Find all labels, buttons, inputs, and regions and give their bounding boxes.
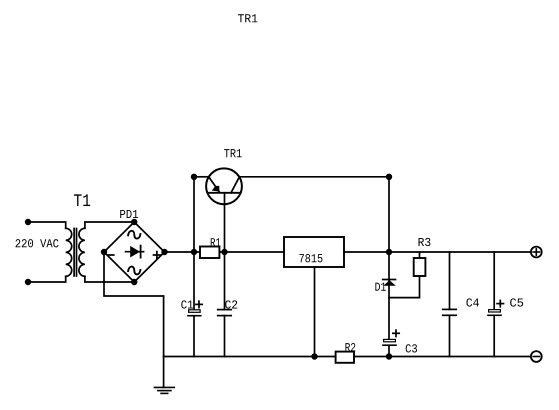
- wire C5 bottom lead: [493, 316, 495, 357]
- wire C2 bottom lead: [224, 316, 226, 357]
- wire ground rail right: [354, 356, 530, 358]
- wire base vertical: [224, 193, 226, 310]
- C5 plus mark: [497, 300, 503, 306]
- label R2: [345, 343, 355, 351]
- node bridge right vertex: [161, 249, 167, 255]
- node input top terminal: [25, 219, 31, 225]
- wire 7815 output rail: [344, 251, 530, 253]
- C1 plus mark: [196, 301, 202, 307]
- C3 plus mark: [393, 330, 399, 336]
- output terminal plus: [531, 247, 542, 258]
- wire C3 bottom lead: [388, 346, 390, 357]
- wire emitter branch vertical: [193, 177, 195, 309]
- label C2: [225, 300, 237, 308]
- capacitor C5: [488, 310, 501, 316]
- regulator U1 7815: [284, 237, 344, 267]
- transformer T1 core: [74, 229, 76, 277]
- label C5: [510, 298, 523, 306]
- label C3: [406, 344, 417, 352]
- node 7815 ground junction: [311, 353, 317, 359]
- output terminal minus: [531, 351, 542, 362]
- bridge PD1 plus mark: [154, 252, 161, 259]
- wire R3 top lead: [419, 252, 421, 258]
- node C3 ground junction: [386, 353, 392, 359]
- node collector corner: [386, 174, 392, 180]
- node R1 left: [191, 249, 197, 255]
- bridge PD1 minus mark: [108, 254, 114, 256]
- wire bridge plus to R1: [165, 251, 201, 253]
- transformer T1 secondary winding: [79, 228, 85, 276]
- resistor R1: [200, 247, 219, 259]
- bridge rectifier PD1 body: [104, 222, 165, 282]
- diode D1: [383, 280, 396, 286]
- wire R3 bottom to D1 anode: [389, 276, 420, 298]
- wire C4 top lead: [449, 252, 451, 309]
- wire ground rail left: [164, 356, 336, 358]
- label R3: [419, 238, 431, 246]
- node bridge top vertex: [131, 219, 137, 225]
- label T1: [74, 194, 90, 206]
- wire secondary bottom: [85, 276, 134, 282]
- wire primary bottom: [28, 276, 66, 282]
- label C1: [181, 300, 193, 308]
- node bridge bottom vertex: [131, 279, 137, 285]
- wire C4 bottom lead: [449, 315, 451, 356]
- resistor R3: [414, 258, 426, 276]
- label 220 VAC: [16, 239, 59, 247]
- label TR1: [224, 149, 242, 157]
- label R1: [211, 238, 221, 246]
- wire secondary top: [85, 222, 134, 228]
- wire primary top: [28, 222, 66, 228]
- transistor TR1: [206, 168, 242, 204]
- node R1 right: [221, 249, 227, 255]
- title label TR1: [238, 14, 258, 22]
- node bridge left vertex: [101, 249, 107, 255]
- wire collector down to rail: [388, 177, 390, 252]
- bridge PD1 internal diode: [126, 246, 144, 258]
- node emitter junction: [191, 174, 197, 180]
- wire rail down through D1 to C3: [388, 252, 390, 339]
- label D1: [375, 283, 385, 291]
- wire R1 to 7815: [219, 251, 284, 253]
- capacitor C2: [218, 310, 232, 316]
- ground: [155, 357, 175, 394]
- wire bridge minus to ground rail: [104, 252, 164, 357]
- capacitor C3: [383, 339, 396, 345]
- wire collector horizontal: [241, 176, 390, 178]
- node output rail junction: [386, 249, 392, 255]
- bridge PD1 AC mark top: [128, 231, 140, 239]
- node input bottom terminal: [25, 279, 31, 285]
- wire 7815 ground pin: [314, 267, 316, 357]
- capacitor C4: [443, 309, 457, 315]
- wire C1 bottom lead: [193, 317, 195, 357]
- bridge PD1 AC mark bottom: [128, 267, 140, 275]
- label C4: [466, 298, 478, 306]
- wire C5 top lead: [493, 252, 495, 309]
- label 7815: [299, 254, 322, 262]
- wire emitter horizontal: [194, 176, 208, 178]
- transformer T1 primary winding: [66, 228, 72, 276]
- resistor R2: [336, 352, 354, 363]
- label PD1: [120, 210, 138, 218]
- capacitor C1: [188, 310, 201, 316]
